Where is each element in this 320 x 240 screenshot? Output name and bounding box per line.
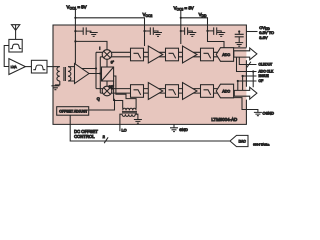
filter F1 (I lowpass): [131, 48, 144, 61]
wire filter to transformer: [47, 66, 60, 68]
svg-text:GND: GND: [179, 128, 188, 132]
capacitor C2 with ground: [145, 27, 163, 36]
svg-text:DAC: DAC: [239, 139, 247, 143]
svg-text:ISSUE: ISSUE: [259, 74, 270, 78]
module border: [53, 25, 246, 124]
wire DC offset control: [70, 115, 230, 141]
svg-text:I: I: [99, 47, 100, 51]
wire: [159, 89, 166, 94]
wire: [144, 89, 149, 94]
node: [237, 80, 239, 82]
svg-text:9004 TA01a: 9004 TA01a: [253, 143, 269, 147]
wire RF to I mixer: [96, 52, 103, 93]
bus slash 2: [104, 137, 108, 143]
filter FL1 (antenna bandpass): [9, 39, 22, 52]
filter F4 (Q lowpass): [131, 85, 144, 98]
amplifier A5 (Q): [183, 83, 198, 100]
filter F3 (I lowpass): [201, 48, 214, 61]
wire mixer I to phase splitter: [106, 59, 108, 67]
wire OVDD to output stage: [234, 47, 247, 49]
antenna: [11, 25, 19, 40]
svg-text:CLKOUT: CLKOUT: [259, 63, 273, 67]
wire: [179, 89, 183, 94]
ADC U4 (Q): [216, 84, 233, 98]
wire mixer Q to filter: [111, 89, 130, 94]
capacitor C4 with ground: [208, 27, 226, 36]
node clk: [252, 70, 254, 72]
wires T1 to amp: [68, 67, 75, 81]
filter F2 (I lowpass): [166, 48, 179, 61]
module LTM9004 body fill: [53, 25, 246, 124]
output arrow I: [234, 48, 257, 60]
svg-text:ADC CLK: ADC CLK: [259, 70, 274, 74]
phase splitter 0/90: [102, 67, 114, 81]
wire: [193, 89, 200, 94]
svg-text:Q: Q: [97, 97, 100, 101]
amplifier A3 (I): [183, 46, 198, 63]
wire: [214, 89, 219, 94]
svg-text:ADC: ADC: [222, 53, 230, 57]
ADC U3 (I): [216, 48, 233, 62]
wire: [238, 81, 257, 90]
svg-text:ADC: ADC: [222, 90, 230, 94]
transformer T1 core: [64, 67, 66, 81]
wire: [193, 52, 200, 57]
VCC3 rail: [181, 11, 224, 48]
node RF-: [99, 72, 101, 74]
transformer T1 secondary: [68, 67, 71, 81]
transformer T1 primary: [57, 67, 60, 81]
wire: [214, 52, 219, 57]
svg-text:3.6V: 3.6V: [259, 35, 268, 40]
wire ADC CLK: [237, 57, 257, 87]
OVDD line: [246, 31, 257, 33]
svg-text:LO: LO: [122, 129, 127, 133]
DAC U2: [230, 135, 248, 146]
ground OGND pin: [234, 98, 262, 116]
LNA U1: [9, 59, 26, 75]
ground (T1 primary): [51, 81, 59, 90]
mixer M1 (I): [102, 50, 112, 60]
op-amp A1 (input amp): [75, 64, 90, 84]
wire LO input: [120, 114, 122, 131]
arrowhead: [113, 98, 115, 101]
svg-text:VCC1 = 5V: VCC1 = 5V: [67, 5, 87, 11]
wire antenna filter to LNA: [4, 46, 9, 67]
svg-text:2: 2: [103, 134, 106, 139]
offset adjust block: [57, 107, 89, 116]
svg-text:OFFSET ADJUST: OFFSET ADJUST: [59, 110, 88, 114]
wire: [243, 76, 257, 90]
wire VCC1 to mixer I: [75, 41, 107, 49]
transformer T2 (LO) primary: [123, 108, 136, 110]
junction dots VCC1: [74, 17, 208, 43]
wire LNA to filter: [25, 66, 31, 68]
svg-text:VCC2: VCC2: [143, 12, 153, 18]
svg-text:VCC3 = 3V: VCC3 = 3V: [174, 6, 194, 12]
filter FL2 (bandpass): [31, 60, 47, 73]
output arrow Q: [234, 87, 257, 99]
wire phase splitter to LO transformer: [114, 76, 137, 109]
transformer T2 core: [122, 112, 137, 113]
ground (T2 secondary): [134, 114, 142, 123]
ground GND pin: [170, 124, 178, 131]
amplifier A2 (I): [148, 46, 163, 63]
wire amp outputs: [82, 69, 100, 74]
svg-text:CONTROL: CONTROL: [74, 134, 95, 139]
filter F6 (Q lowpass): [201, 85, 214, 98]
svg-text:VDD: VDD: [199, 12, 207, 18]
filter F5 (Q lowpass): [166, 85, 179, 98]
svg-text:LTM9004-AD: LTM9004-AD: [211, 117, 237, 122]
wire CLKOUT: [239, 57, 256, 64]
capacitor C3 with ground: [181, 27, 197, 36]
VCC1 rail: [75, 10, 144, 64]
wire: [179, 52, 183, 57]
svg-text:OF: OF: [259, 79, 264, 83]
wire offset adjust to Q path: [89, 100, 115, 110]
wire phase splitter to mixer Q: [106, 81, 108, 86]
capacitor C1 with ground: [75, 27, 97, 36]
wire: [159, 52, 166, 57]
mixer M2 (Q): [102, 86, 112, 96]
svg-text:OGND: OGND: [263, 112, 275, 116]
wire mixer I to filter: [111, 52, 130, 57]
amplifier A4 (Q): [148, 83, 163, 100]
svg-text:LNA: LNA: [11, 65, 17, 69]
capacitor C5 (OVDD bypass) with ground: [235, 30, 244, 46]
node RF+: [95, 67, 97, 69]
transformer T2 secondary: [122, 114, 135, 116]
wire: [144, 52, 149, 57]
bus slash: [247, 62, 251, 68]
wire RF to Q mixer: [96, 89, 103, 94]
